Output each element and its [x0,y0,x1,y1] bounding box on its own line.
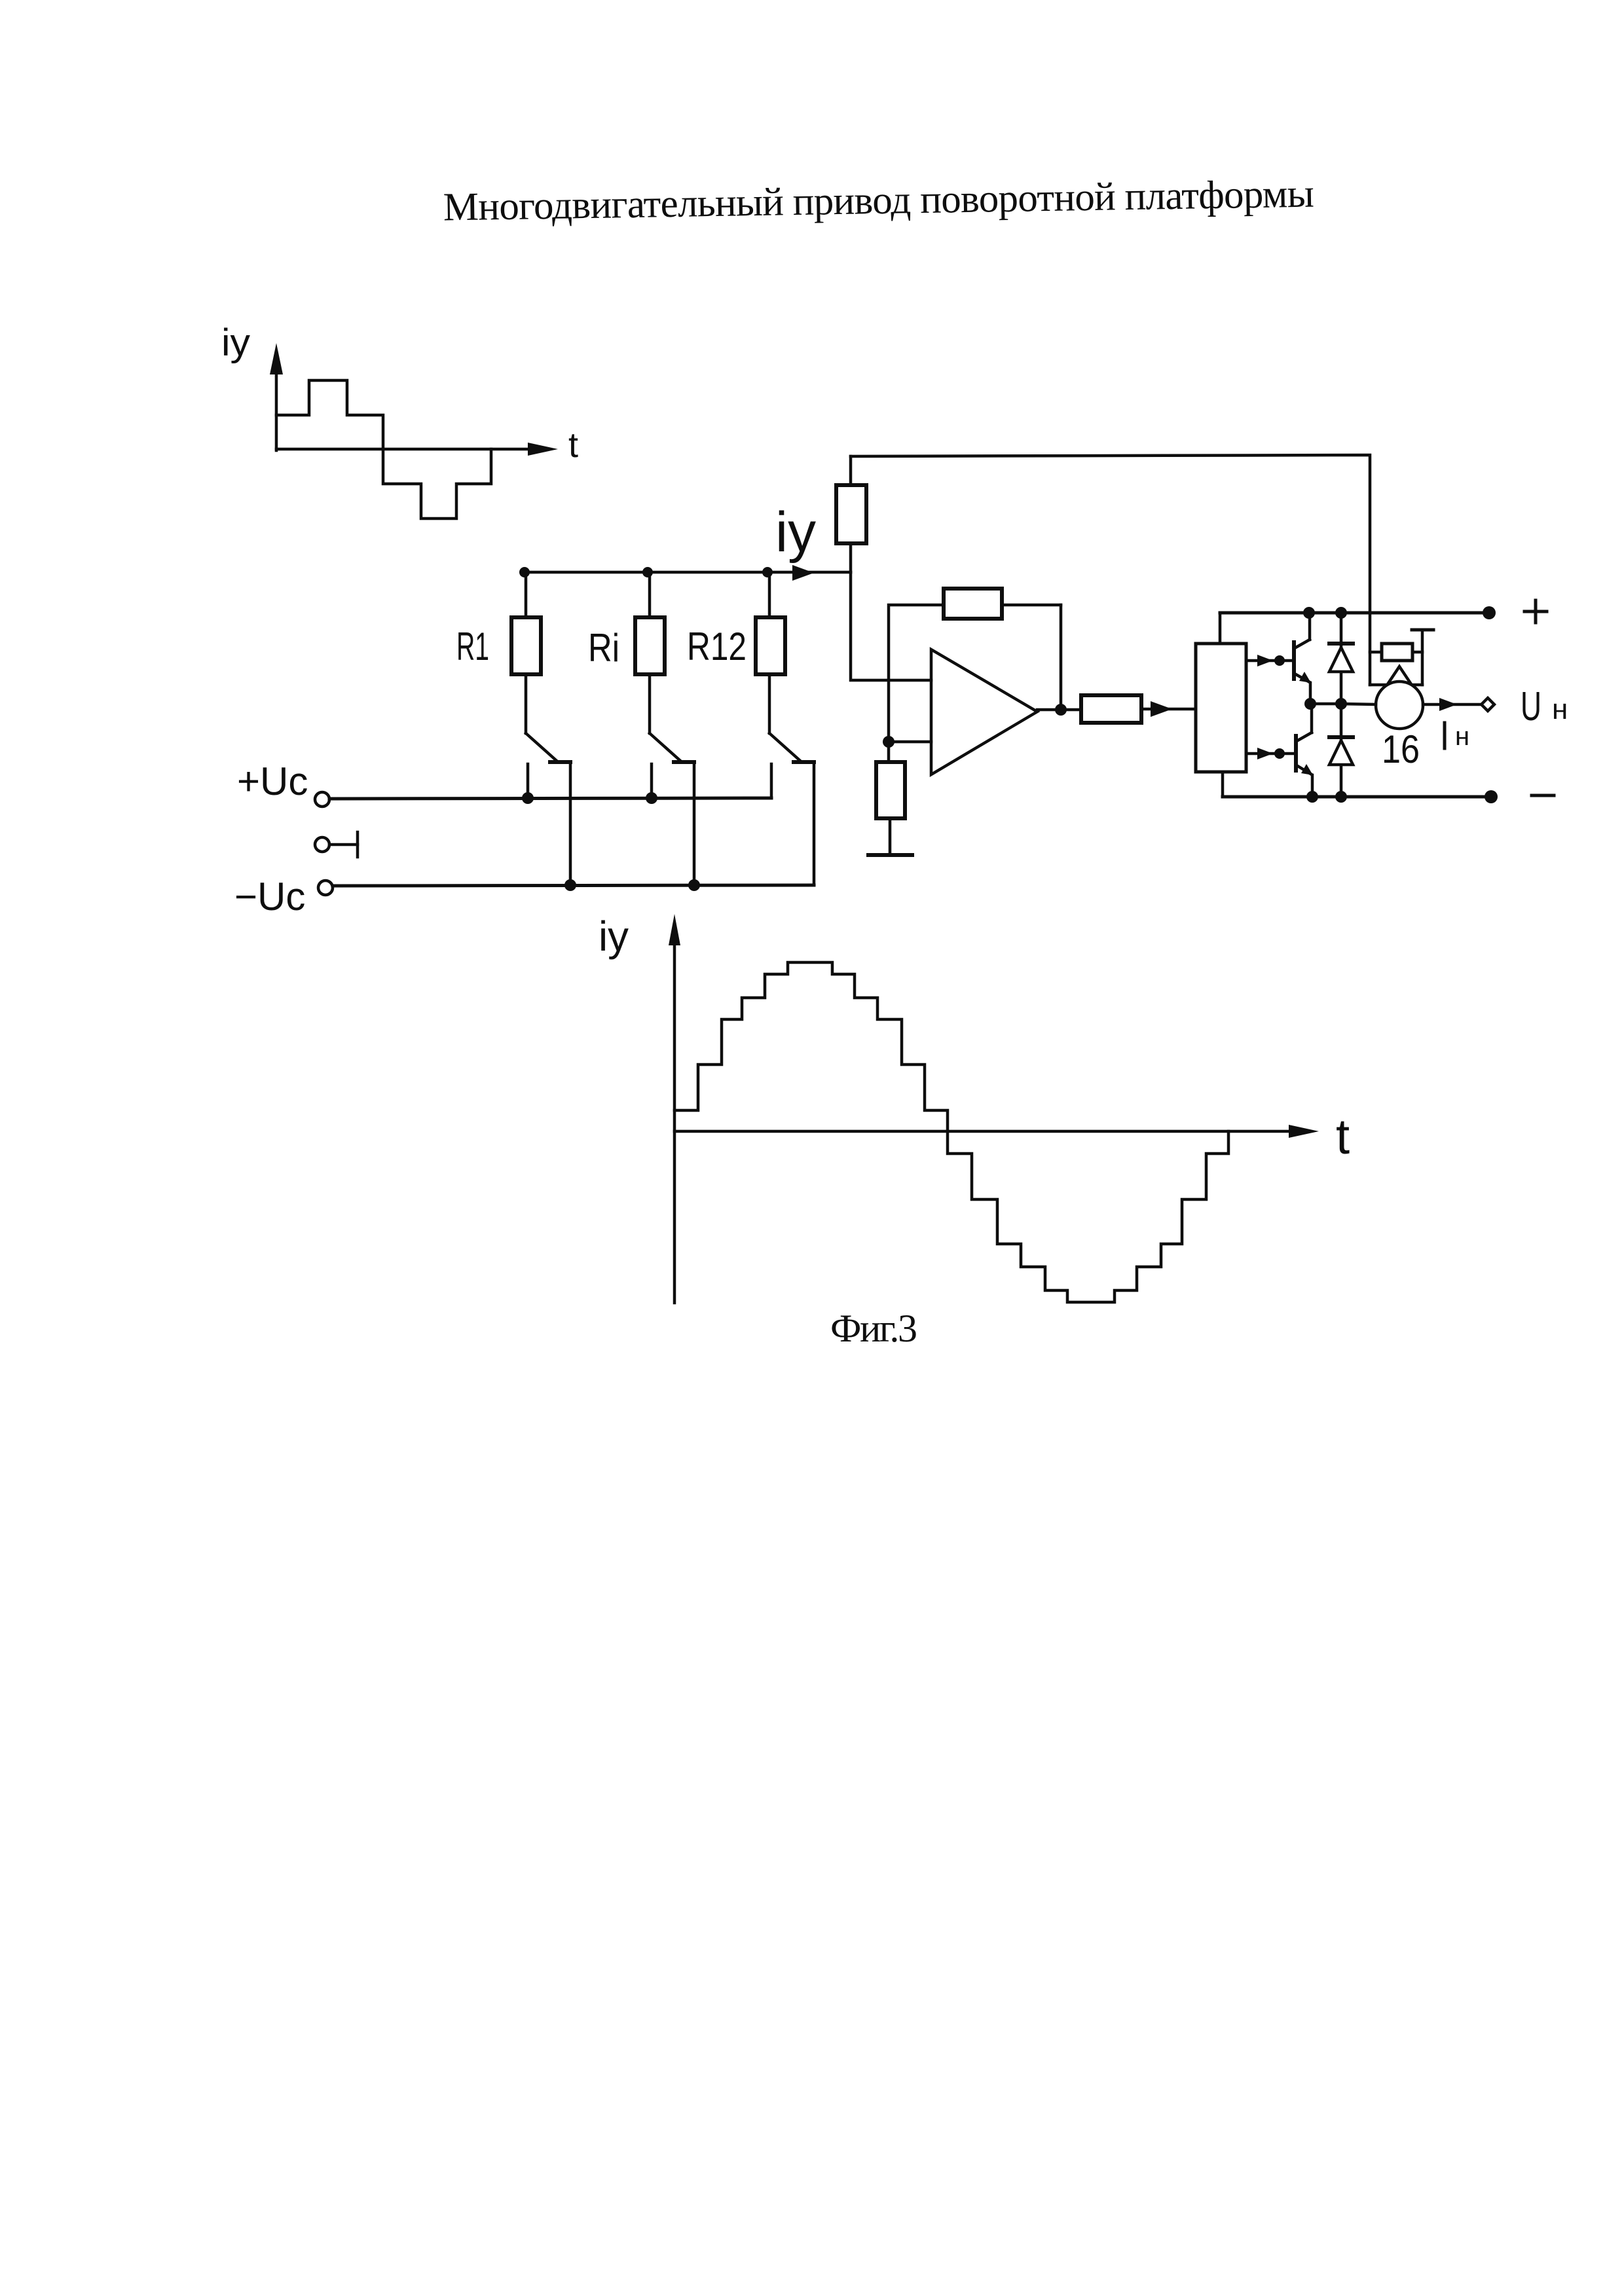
resistor R15 (to ground) [876,762,905,854]
Ri value label [588,626,619,670]
diode string wire [1335,613,1347,797]
wire: driver top to + rail [1219,613,1222,644]
iy current label at bus [775,501,816,564]
svg-text:−Uc: −Uc [234,875,305,919]
transistor Q14 (lower output) [1246,704,1313,797]
wire: op-amp output [1037,708,1081,712]
label - [1532,794,1554,797]
diode VD2 [1329,737,1353,765]
wire: feedback loop top [851,455,1370,685]
tach resistor R17 [1370,644,1422,661]
resistor R13 (iy feedback, vertical) [836,456,866,572]
terminal common (middle) [315,832,358,857]
resistor R14 (op-amp feedback, horizontal) [944,589,1067,716]
transistor switch Q12 (under R12) [769,733,814,885]
node +: positive rail [1220,606,1496,619]
graph 1 staircase waveform [276,380,491,519]
svg-text:iy: iy [775,501,816,564]
graph 1 vertical axis [270,343,283,450]
wire: non-inverting input [883,736,931,748]
transistor switch Qi (under Ri) [646,733,700,891]
diode VD1 [1329,644,1353,672]
label Uн [1521,684,1568,729]
title: figure heading [443,172,1314,230]
node -: negative rail [1223,790,1498,803]
svg-text:н: н [1552,693,1568,725]
graph 2 horizontal axis t [674,1125,1319,1138]
svg-text:R12: R12 [687,625,747,668]
graph 1 horizontal axis t [276,443,558,456]
svg-text:R1: R1 [456,625,489,668]
node A: iy summing bus [519,565,851,581]
R1 value label [456,625,489,668]
graph 2 staircase sine waveform [674,962,1228,1302]
terminal -Uc [234,875,333,919]
R12 value label [687,625,747,668]
terminal +Uc [237,759,329,807]
svg-text:16: 16 [1382,727,1420,771]
resistor R16 (output series) [1081,695,1141,723]
op-amp U1 [931,649,1037,774]
svg-text:iy: iy [599,913,629,960]
svg-text:t: t [568,426,578,465]
transistor switch Q1 (under R1) [522,733,576,891]
graph 2 vertical axis [669,914,680,1303]
graph 2 t label [1336,1109,1350,1165]
resistor R1 [511,572,541,733]
svg-text:U: U [1521,684,1541,729]
svg-text:iy: iy [221,321,250,364]
svg-text:н: н [1455,722,1469,751]
wire: to driver with arrow [1141,701,1196,717]
wire: -Uc bus [333,885,814,886]
wire: +Uc bus [329,798,771,799]
transistor Q13 (upper output) [1246,613,1316,710]
wire: divider vertical [889,605,944,762]
wire: midpoint to diode string [1310,702,1341,706]
svg-text:t: t [1336,1109,1350,1165]
label Iн [1445,722,1469,751]
wire: driver bottom to - rail [1221,772,1225,797]
caption Фиг.3 [830,1307,917,1350]
driver block U2 [1196,644,1246,772]
resistor R12 [756,572,785,733]
svg-text:Фиг.3: Фиг.3 [830,1307,917,1350]
wire: iy node down to op-amp inverting input [851,572,931,680]
label 16 [1382,727,1420,771]
wire: motor to Uн terminal [1423,698,1494,711]
graph 1 t label [568,426,578,465]
svg-text:Ri: Ri [588,626,619,670]
svg-text:+Uc: +Uc [237,759,308,803]
resistor Ri [635,572,665,733]
label + [1524,600,1547,623]
ground [868,853,912,857]
graph 2 iy axis label [599,913,629,960]
tach frame wires [1370,630,1433,685]
graph 1 iy axis label [221,321,250,364]
motor 16 [1376,666,1423,729]
wire: diode node to motor [1341,704,1376,704]
